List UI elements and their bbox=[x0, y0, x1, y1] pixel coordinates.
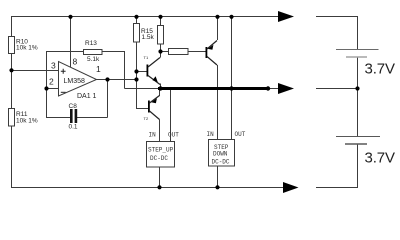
junction top rail pin8 bbox=[68, 15, 72, 19]
wire T1 base lead bbox=[136, 71, 147, 73]
wire R13 right lead bbox=[102, 51, 125, 53]
svg-text:3.7V: 3.7V bbox=[365, 150, 396, 167]
resistor R10 bbox=[9, 37, 38, 54]
wire R10 bottom to node A bbox=[11, 54, 13, 71]
wire C8 up to pin 1 bbox=[107, 79, 109, 118]
step-up converter bbox=[147, 132, 180, 168]
svg-text:1.5k: 1.5k bbox=[142, 34, 155, 41]
wire thick line to middle arrow bbox=[268, 88, 278, 90]
svg-text:2: 2 bbox=[49, 77, 54, 87]
wire R15 top lead bbox=[136, 17, 138, 24]
resistor R16 unlabeled vertical bbox=[158, 26, 164, 45]
svg-text:1: 1 bbox=[96, 64, 101, 74]
wire left rail top lead R10 bbox=[11, 17, 13, 37]
junction step-down ground bbox=[215, 185, 219, 189]
wire battery mid tap bbox=[316, 88, 358, 90]
svg-text:OUT: OUT bbox=[168, 132, 179, 139]
op-amp U1 LM358 DA1.1 bbox=[49, 57, 101, 101]
wire R16 bottom lead bbox=[160, 44, 162, 58]
resistor R17 unlabeled horizontal bbox=[169, 49, 189, 55]
svg-text:3: 3 bbox=[51, 61, 56, 71]
junction top rail step-down OUT bbox=[229, 15, 233, 19]
wire step-up bottom to rail bbox=[159, 167, 161, 188]
junction node A divider bbox=[9, 68, 13, 72]
wire R16 top lead bbox=[160, 17, 162, 26]
junction R16 R17 bbox=[158, 49, 162, 53]
wire R17 left lead bbox=[161, 51, 169, 53]
output line thick 3.7V tap bbox=[158, 87, 268, 90]
svg-text:3.7V: 3.7V bbox=[365, 61, 396, 78]
junction pin 1 C8 bbox=[105, 77, 109, 81]
wire pin 8 supply from top rail bbox=[70, 17, 72, 68]
svg-text:OUT: OUT bbox=[235, 131, 246, 138]
arrow middle output bbox=[278, 83, 294, 94]
svg-text:0.1: 0.1 bbox=[69, 124, 78, 131]
wire base column bbox=[136, 42, 138, 109]
wire pin 2 feedback column bbox=[46, 52, 48, 118]
junction step-up ground bbox=[157, 185, 161, 189]
wire R17 right lead to T3 base bbox=[188, 51, 206, 53]
wire battery top feed bbox=[316, 17, 358, 50]
transistor T2 PNP bbox=[144, 96, 160, 122]
arrow top output bbox=[278, 11, 294, 22]
arrow bottom output bbox=[283, 182, 299, 193]
wire top rail bbox=[11, 16, 278, 18]
svg-text:T1: T1 bbox=[144, 55, 149, 60]
wire step-up OUT to output line bbox=[170, 89, 172, 142]
wire R11 bottom to bottom rail bbox=[11, 126, 13, 188]
wire feedback to output node bbox=[125, 88, 159, 90]
svg-text:C8: C8 bbox=[69, 103, 78, 110]
svg-text:DA1 1: DA1 1 bbox=[77, 93, 97, 100]
svg-text:STEP_UP: STEP_UP bbox=[148, 147, 174, 154]
junction base column output bbox=[134, 77, 138, 81]
wire R13 feedback down bbox=[124, 52, 126, 89]
wire T3 emitter to top rail bbox=[217, 17, 219, 41]
capacitor C8 bbox=[69, 103, 78, 131]
battery B2 bottom cell bbox=[336, 137, 395, 167]
resistor R11 bbox=[9, 109, 38, 127]
wire node A to op-amp pin 3 bbox=[11, 70, 58, 72]
wire T1 emitter drop bbox=[160, 84, 162, 89]
wire T2 collector to step-up IN bbox=[159, 120, 161, 142]
wire bottom rail bbox=[11, 187, 283, 189]
junction top rail T3 emitter bbox=[215, 15, 219, 19]
svg-text:10k 1%: 10k 1% bbox=[16, 45, 38, 52]
step-down converter bbox=[207, 131, 246, 166]
junction top rail R15 bbox=[134, 15, 138, 19]
svg-text:DOWN: DOWN bbox=[213, 151, 228, 158]
svg-text:DC-DC: DC-DC bbox=[150, 155, 168, 162]
junction battery mid tap bbox=[355, 86, 359, 90]
svg-text:R13: R13 bbox=[85, 40, 97, 47]
svg-text:IN: IN bbox=[207, 131, 215, 138]
transistor T1 NPN bbox=[144, 55, 161, 85]
wire node A to R11 top bbox=[11, 70, 13, 108]
svg-text:DC-DC: DC-DC bbox=[212, 159, 230, 166]
junction step-down OUT output line bbox=[229, 86, 233, 90]
wire bottom battery to bottom return bbox=[316, 144, 358, 188]
svg-text:10k 1%: 10k 1% bbox=[16, 118, 38, 125]
wire C8 right lead bbox=[77, 117, 108, 119]
svg-text:T2: T2 bbox=[144, 116, 149, 121]
transistor T3 PNP bbox=[206, 41, 218, 66]
svg-text:8: 8 bbox=[73, 57, 78, 67]
svg-text:IN: IN bbox=[149, 132, 157, 139]
wire T2 emitter rise bbox=[159, 89, 161, 96]
wire pin 2 to op-amp bbox=[46, 88, 58, 90]
wire T3 collector to step-down IN bbox=[217, 65, 219, 140]
wire step-down OUT from top rail bbox=[231, 17, 233, 141]
wire C8 left lead bbox=[46, 117, 70, 119]
resistor R13 bbox=[84, 40, 103, 63]
wire step-down bottom to rail bbox=[217, 166, 219, 188]
junction T1 base bbox=[134, 69, 138, 73]
junction output line arrow tap bbox=[266, 86, 270, 90]
junction emitters output line bbox=[158, 86, 162, 90]
wire op-amp output pin 1 bbox=[96, 79, 137, 81]
wire between battery cells bbox=[357, 57, 359, 137]
svg-text:5.1k: 5.1k bbox=[87, 56, 100, 63]
svg-text:LM358: LM358 bbox=[64, 78, 86, 85]
wire R13 left lead bbox=[46, 51, 84, 53]
resistor R15 bbox=[134, 24, 155, 43]
junction top rail R16 bbox=[158, 15, 162, 19]
junction pin 2 bbox=[44, 86, 48, 90]
battery B1 top cell bbox=[336, 50, 395, 78]
wire T2 base lead bbox=[136, 108, 148, 110]
